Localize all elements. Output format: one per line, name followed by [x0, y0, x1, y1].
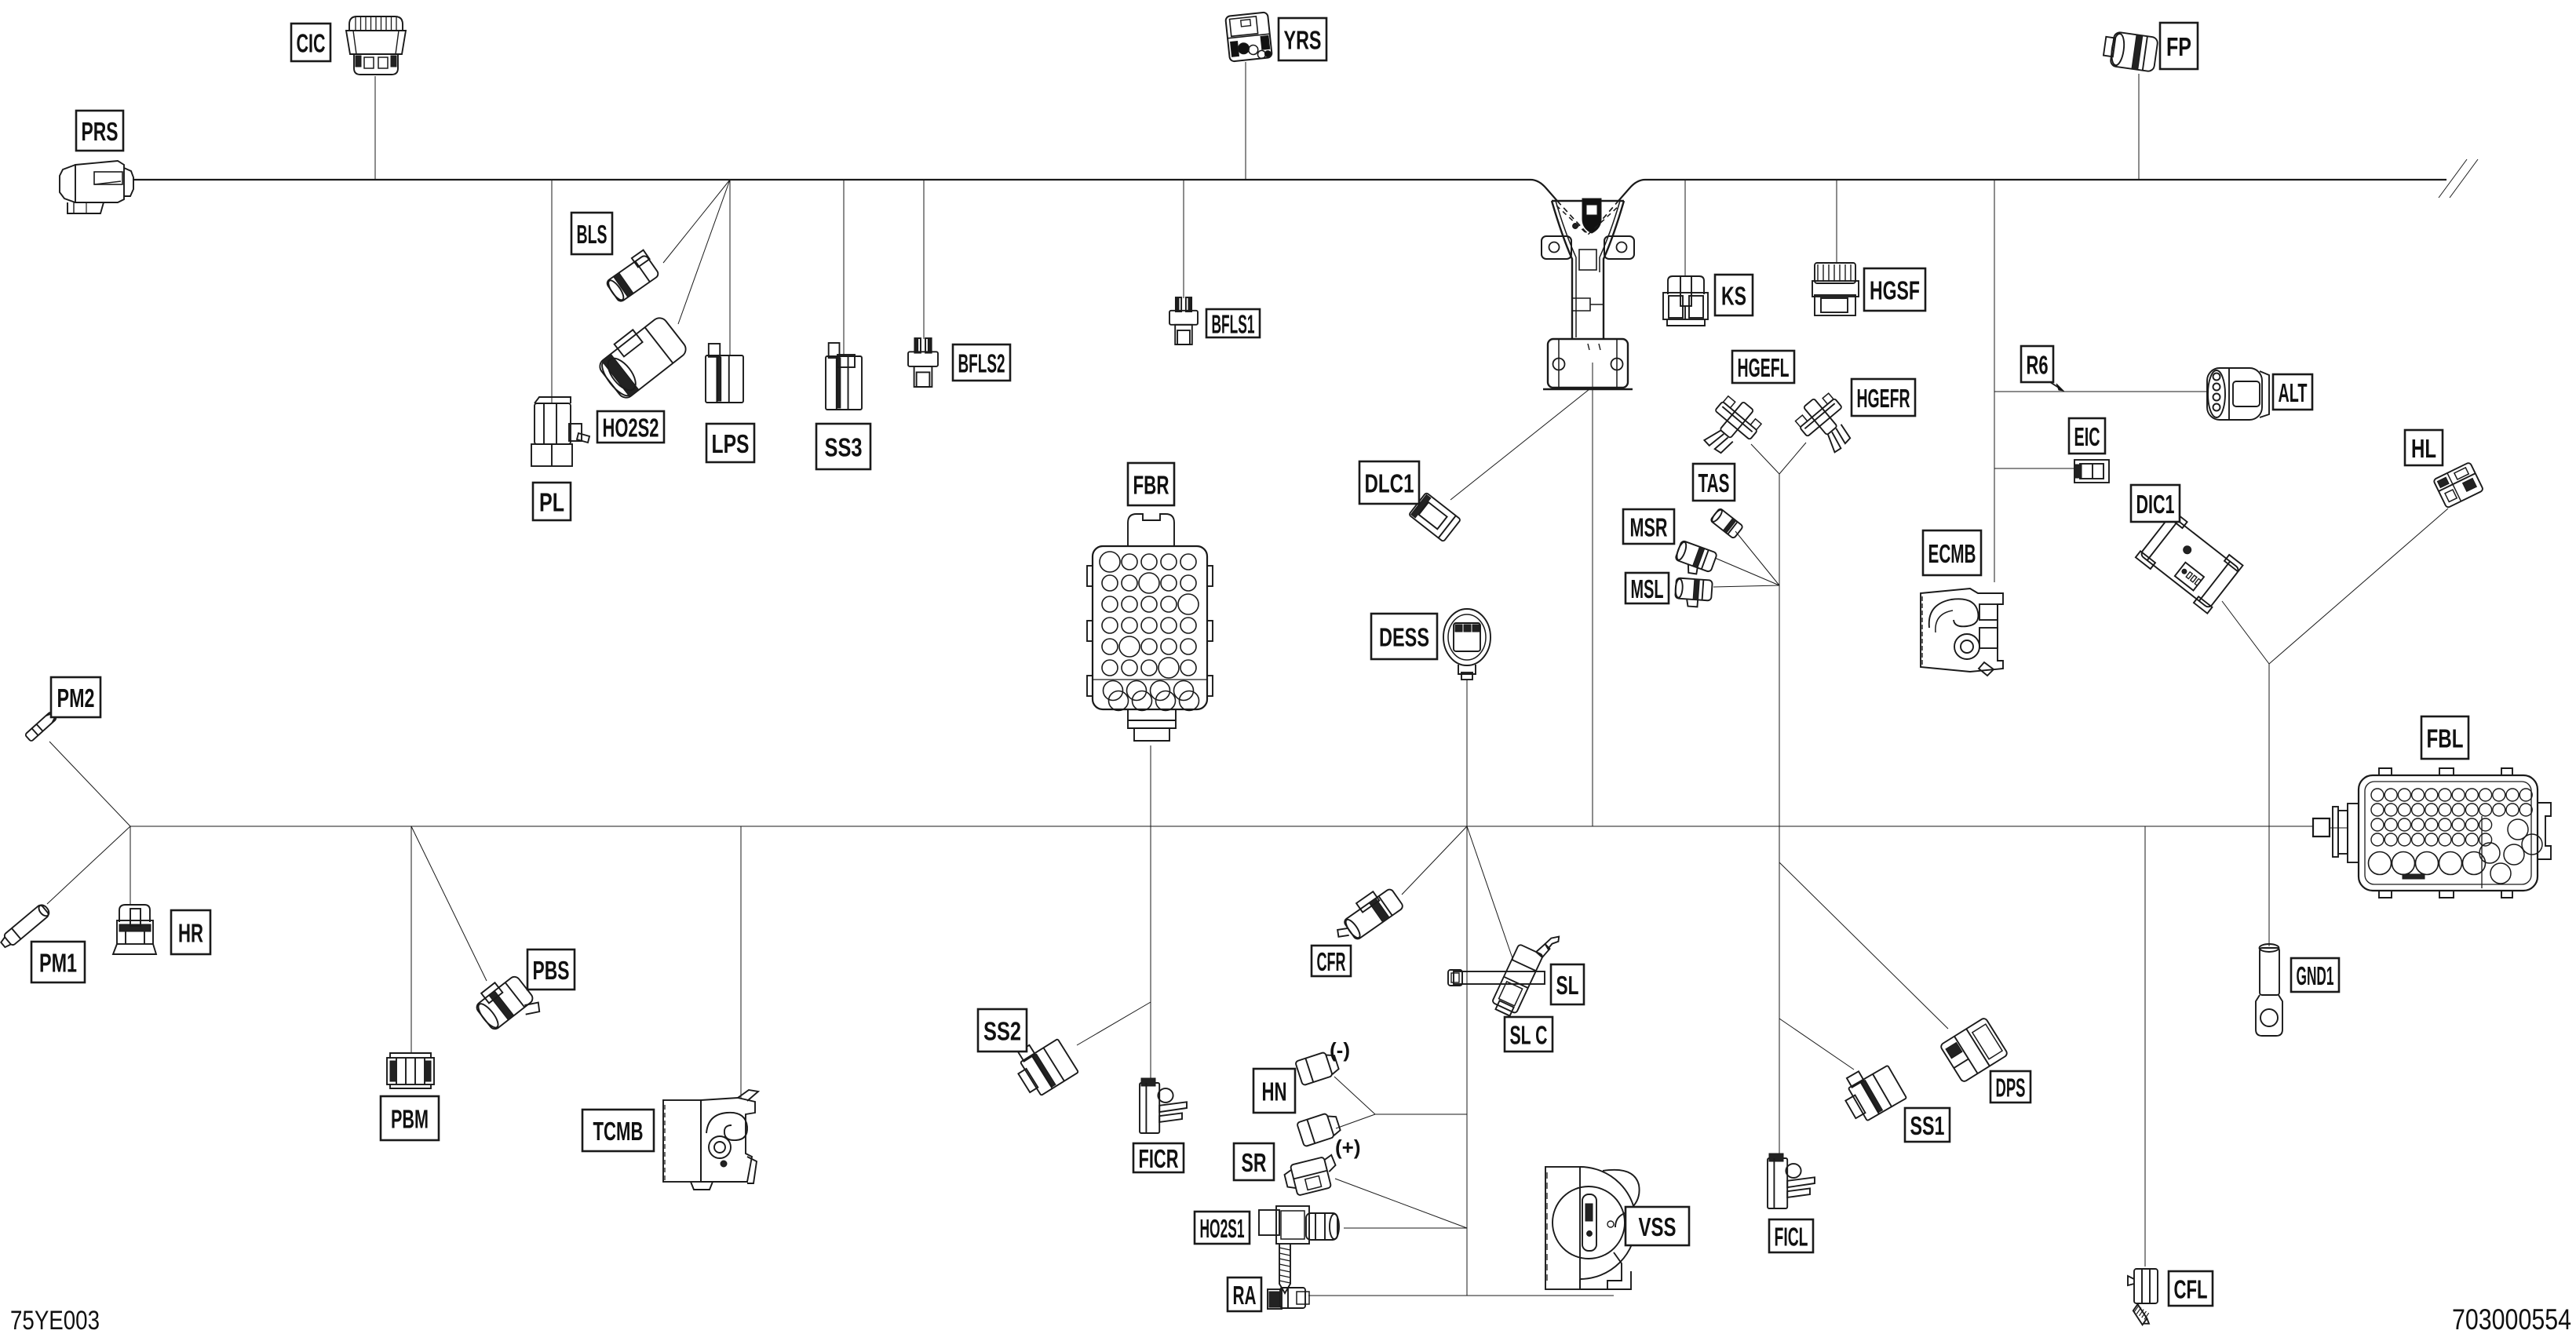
connector HL [2433, 462, 2483, 508]
wire HGEFL branch [1751, 444, 1779, 474]
connector ALT [2207, 368, 2262, 420]
connector SS3 [826, 343, 862, 410]
wire HGEFR branch [1779, 443, 1806, 474]
wire trunk right [1994, 180, 1995, 582]
connector HN minus [1295, 1050, 1340, 1086]
label KS [1715, 275, 1753, 315]
svg-text:SR: SR [1242, 1148, 1267, 1177]
wire DESS drop [1466, 680, 1468, 826]
wire FBR to FICR [1150, 745, 1151, 1081]
connector PRS [75, 161, 124, 202]
connector RA [1269, 1292, 1280, 1307]
connector PM2 [25, 712, 57, 742]
label FBL [2421, 716, 2468, 759]
svg-text:TCMB: TCMB [593, 1117, 644, 1146]
connector TAS [1710, 508, 1743, 538]
connector DESS [1443, 609, 1491, 665]
wire branch HO2S2 [678, 180, 730, 324]
label HN [1253, 1069, 1295, 1113]
wire DPS branch [1779, 862, 1948, 1029]
connector EIC [2074, 460, 2109, 483]
wire DLC1 branch [1450, 389, 1589, 500]
wire drop FP [2138, 74, 2140, 180]
label YRS [1279, 18, 1326, 60]
svg-text:MSL: MSL [1631, 574, 1664, 603]
connector PBM [390, 1053, 431, 1059]
label PM2 [51, 677, 100, 717]
svg-text:HR: HR [178, 919, 203, 948]
connector SS1 [1836, 1057, 1906, 1124]
svg-text:MSR: MSR [1630, 513, 1668, 542]
connector MSL [1674, 578, 1713, 607]
label HO2S1 [1195, 1212, 1250, 1244]
label FICR [1133, 1143, 1184, 1172]
wire drop BFLS1 [1183, 180, 1184, 298]
connector PBS [470, 969, 543, 1041]
wire HO2S1 line [1344, 1227, 1467, 1229]
wire drop LPS [729, 180, 731, 355]
wire bracket down [1592, 363, 1593, 826]
connector KS [1668, 276, 1704, 294]
svg-text:CFR: CFR [1317, 947, 1346, 976]
svg-text:SS1: SS1 [1910, 1111, 1945, 1140]
label PL [533, 483, 571, 520]
wire HN plus [1336, 1114, 1375, 1128]
wire main top right segment [1618, 180, 2446, 201]
svg-text:SS2: SS2 [983, 1017, 1021, 1046]
wire branch DIC1 [2222, 601, 2269, 664]
svg-text:HGEFL: HGEFL [1738, 353, 1790, 382]
label PBM [381, 1096, 439, 1140]
svg-text:FICR: FICR [1139, 1144, 1179, 1173]
connector HO2S1 [1259, 1210, 1279, 1235]
bracket clamp [1552, 200, 1624, 202]
wire GND vertical [2268, 664, 2270, 946]
connector SL [1454, 971, 1545, 984]
wire FBL square [2313, 818, 2330, 836]
label FP [2160, 23, 2198, 69]
label HGEFL [1732, 351, 1794, 383]
wire branch SS2 [1077, 1002, 1151, 1045]
svg-text:FICL: FICL [1775, 1223, 1808, 1252]
connector HR [119, 905, 150, 922]
wire drop TCMB [740, 826, 742, 1099]
wire SR line [1335, 1179, 1467, 1228]
wire to EIC [1994, 468, 2074, 469]
connector FP [2102, 31, 2158, 72]
label RA [1228, 1278, 1261, 1311]
wire RA run [1308, 1295, 1614, 1296]
connector DLC1 [1409, 493, 1461, 542]
svg-text:ALT: ALT [2279, 378, 2308, 407]
svg-text:VSS: VSS [1639, 1212, 1677, 1241]
wire SS1 branch [1779, 1019, 1854, 1070]
connector HN plus [1297, 1111, 1341, 1147]
label EIC [2069, 418, 2105, 454]
wire main top hidden dip [1557, 201, 1618, 233]
wire drop PBM [410, 826, 412, 1052]
wire drop BFLS2 [923, 180, 925, 339]
svg-text:SS3: SS3 [825, 433, 863, 462]
svg-text:BLS: BLS [577, 220, 608, 249]
svg-text:PBS: PBS [533, 956, 570, 985]
wire drop CFL [2144, 826, 2146, 1267]
svg-text:BFLS1: BFLS1 [1212, 310, 1255, 339]
connector GND1 [2260, 948, 2279, 995]
svg-text:RA: RA [1233, 1281, 1257, 1310]
svg-text:YRS: YRS [1284, 26, 1322, 55]
wire branch PBS [411, 826, 487, 981]
label R6 [2021, 346, 2053, 382]
wire FBL stub [2330, 827, 2348, 829]
connector ECMB [1921, 589, 2003, 672]
connector HO2S2 [593, 311, 688, 402]
connector DIC1 [2136, 510, 2244, 613]
label DIC1 [2131, 485, 2180, 522]
wire drop SS3 [843, 180, 845, 357]
wire drop HR [130, 826, 131, 906]
connector LPS [706, 344, 743, 403]
svg-text:75YE003: 75YE003 [10, 1306, 100, 1334]
label CIC [291, 24, 330, 61]
wire R6 to ALT [1994, 391, 2208, 392]
svg-text:SL: SL [1556, 971, 1579, 1000]
wire drop HGSF [1836, 180, 1837, 262]
svg-text:HGEFR: HGEFR [1857, 384, 1910, 413]
svg-text:FBL: FBL [2427, 724, 2464, 753]
connector PM1 [0, 902, 52, 950]
svg-text:PRS: PRS [82, 117, 119, 146]
label TCMB [582, 1110, 654, 1151]
label SL C [1505, 1017, 1553, 1052]
wire MSL branch [1713, 585, 1779, 587]
label HO2S2 [597, 411, 664, 443]
connector BFLS1 [1169, 297, 1198, 344]
label FICL [1769, 1219, 1813, 1252]
connector HGSF [1815, 263, 1855, 283]
wire break mark [2439, 159, 2467, 198]
connector SR [1283, 1154, 1341, 1197]
label BFLS2 [953, 344, 1010, 381]
connector CFL [2134, 1269, 2158, 1303]
svg-text:EIC: EIC [2074, 422, 2100, 451]
wire TAS branch [1735, 531, 1779, 585]
label HR [171, 910, 210, 954]
connector YRS [1225, 12, 1272, 61]
connector TCMB [663, 1100, 701, 1182]
svg-text:ECMB: ECMB [1928, 539, 1976, 568]
wire drop YRS [1245, 62, 1246, 180]
wire MSR branch [1715, 558, 1779, 585]
label ALT [2273, 374, 2312, 410]
wire drop KS [1684, 180, 1686, 276]
svg-text:HL: HL [2411, 434, 2436, 463]
connector BLS [603, 250, 661, 303]
wire main top left segment [133, 180, 1557, 201]
label MSR [1623, 509, 1674, 544]
label SS1 [1905, 1108, 1950, 1142]
svg-text:HN: HN [1262, 1077, 1287, 1106]
wire drop CIC [374, 76, 376, 180]
svg-text:DESS: DESS [1379, 623, 1429, 652]
label CFR [1312, 946, 1351, 976]
svg-text:PL: PL [539, 488, 564, 517]
svg-text:BFLS2: BFLS2 [958, 349, 1005, 378]
svg-text:TAS: TAS [1698, 468, 1730, 498]
label GND1 [2291, 958, 2339, 992]
svg-text:FP: FP [2166, 32, 2191, 61]
label PM1 [31, 942, 85, 982]
connector BFLS2 [908, 338, 938, 387]
label PRS [76, 111, 123, 151]
label DLC1 [1359, 461, 1419, 504]
svg-text:CFL: CFL [2174, 1275, 2208, 1304]
wire to PM2 [49, 742, 130, 826]
svg-text:PBM: PBM [391, 1105, 429, 1134]
label SL [1551, 964, 1584, 1004]
connector HGEFL [1695, 392, 1766, 463]
wire branch BLS [663, 180, 730, 263]
wire HGE junction vert [1779, 474, 1780, 1156]
label SR [1234, 1143, 1274, 1180]
svg-text:HO2S2: HO2S2 [603, 414, 659, 443]
label ECMB [1923, 530, 1981, 575]
svg-text:703000554: 703000554 [2452, 1303, 2571, 1334]
connector HGEFR [1791, 388, 1862, 460]
label SS2 [978, 1009, 1027, 1052]
wire HN minus [1334, 1077, 1375, 1114]
wire branch CFR [1402, 826, 1467, 895]
connector DPS [1939, 1017, 2008, 1083]
svg-text:CIC: CIC [297, 29, 326, 58]
label MSL [1626, 573, 1669, 603]
svg-text:(+): (+) [1335, 1135, 1361, 1159]
connector FBL [2359, 775, 2538, 891]
svg-text:KS: KS [1721, 282, 1746, 311]
label HGEFR [1852, 379, 1915, 416]
label DPS [1990, 1071, 2031, 1103]
label PBS [527, 949, 575, 990]
connector FICL [1768, 1154, 1815, 1208]
connector VSS [1545, 1167, 1580, 1289]
svg-text:HO2S1: HO2S1 [1200, 1214, 1245, 1243]
connector CFR [1329, 882, 1404, 948]
label VSS [1626, 1207, 1689, 1245]
svg-text:GND1: GND1 [2297, 961, 2334, 990]
connector FICR [1140, 1078, 1187, 1133]
svg-text:LPS: LPS [712, 429, 750, 458]
label HGSF [1864, 268, 1925, 311]
svg-text:(-): (-) [1330, 1038, 1350, 1062]
connector PL [531, 397, 589, 466]
wire HN run [1375, 1113, 1467, 1115]
connector FBR [1087, 514, 1213, 741]
label TAS [1693, 464, 1735, 501]
wire to PM1 [47, 826, 130, 904]
svg-text:SL C: SL C [1510, 1021, 1548, 1050]
connector SS2 [1009, 1030, 1078, 1099]
connector CIC [346, 16, 406, 75]
wire drop PL [551, 180, 553, 403]
label LPS [706, 424, 754, 462]
svg-text:HGSF: HGSF [1870, 276, 1920, 305]
svg-text:DLC1: DLC1 [1365, 469, 1414, 498]
svg-text:PM1: PM1 [39, 949, 77, 978]
svg-text:R6: R6 [2027, 351, 2049, 380]
wire DESS vertical down [1466, 826, 1468, 1296]
wire main bottom [130, 826, 2313, 827]
label CFL [2169, 1271, 2213, 1306]
label DESS [1371, 614, 1437, 659]
connector MSR [1672, 540, 1717, 579]
label BFLS1 [1206, 309, 1260, 337]
label SS3 [816, 424, 870, 469]
svg-text:DIC1: DIC1 [2136, 490, 2175, 519]
svg-text:DPS: DPS [1996, 1073, 2026, 1103]
label HL [2405, 430, 2443, 465]
svg-text:PM2: PM2 [57, 683, 95, 713]
label FBR [1128, 463, 1174, 505]
label BLS [571, 213, 612, 254]
wire branch HL [2269, 508, 2448, 664]
svg-text:FBR: FBR [1133, 471, 1169, 500]
wire branch SL [1467, 826, 1513, 960]
